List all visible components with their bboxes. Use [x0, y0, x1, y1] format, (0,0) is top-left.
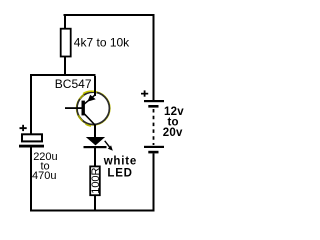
svg-text:100R: 100R: [90, 167, 102, 193]
svg-text:4k7 to 10k: 4k7 to 10k: [74, 36, 130, 50]
svg-text:20v: 20v: [163, 127, 183, 139]
label white LED: [103, 156, 137, 180]
resistor R1 body: [61, 29, 71, 57]
svg-text:LED: LED: [107, 168, 132, 180]
battery BT1: [144, 100, 164, 153]
wire bottom rail: [30, 210, 155, 212]
capacitor C1 negative plate: [19, 145, 44, 148]
resistor R1 bottom lead: [64, 57, 66, 75]
resistor R2 bottom lead: [94, 196, 96, 210]
wire capacitor negative lead: [30, 148, 32, 210]
transistor Q1 circle: [76, 91, 110, 126]
transistor Q1 base stub wire: [65, 107, 82, 109]
LED D1 triangle anode: [86, 137, 105, 145]
wire battery negative lead: [153, 153, 155, 210]
label battery voltage 12v to 20v: [163, 106, 184, 139]
resistor R2 body: [90, 166, 100, 195]
LED light arrow: [105, 141, 113, 151]
wire transistor to LED: [94, 125, 96, 138]
transistor Q1 emitter diagonal with arrow: [84, 95, 96, 105]
battery plus sign: [141, 90, 148, 96]
svg-text:white: white: [103, 156, 137, 168]
wire capacitor positive lead: [30, 76, 32, 134]
resistor R1 top lead: [64, 16, 66, 28]
transistor Q1 base bar: [82, 101, 85, 116]
LED D1 cathode bar: [84, 146, 107, 148]
capacitor C1 positive plate: [22, 134, 42, 141]
label C1 value 220u to 470u: [32, 151, 58, 182]
wire LED to R2: [94, 148, 96, 166]
svg-text:BC547: BC547: [55, 77, 92, 91]
wire mid horizontal node: [30, 74, 96, 76]
svg-text:470u: 470u: [32, 170, 56, 182]
transistor Q1 lower diagonal lead: [84, 114, 95, 126]
wire battery positive lead: [153, 14, 155, 100]
wire top rail: [64, 14, 155, 16]
capacitor plus sign: [20, 125, 27, 131]
transistor Q1 top lead (to positive node): [94, 76, 96, 96]
